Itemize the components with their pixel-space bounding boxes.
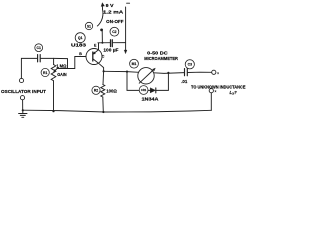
switch S1 bottom contact (100, 29, 103, 32)
transistor Q1 circle (86, 49, 102, 65)
svg-text:1 MΩ: 1 MΩ (56, 64, 67, 69)
svg-text:MICROAMMETER: MICROAMMETER (144, 56, 178, 61)
oscillator input top terminal (19, 78, 23, 82)
capacitor C3 (.01) (185, 69, 188, 76)
svg-text:S1: S1 (87, 24, 91, 28)
node: R2 ground junction (102, 111, 104, 113)
svg-text:B: B (79, 52, 82, 56)
switch S1 blade (open, hooks down-left from top wire) (97, 9, 103, 26)
designator circle C1 (35, 44, 43, 52)
node: R1 / ground rail junction (52, 110, 54, 112)
wire: wiper to Q1 base (57, 57, 86, 69)
wire: oscillator input top lead to C1 (21, 58, 37, 78)
designator circle CR1 (139, 86, 148, 95)
potentiometer R1 wiper arrow (55, 67, 59, 71)
designator circle C3 (185, 60, 194, 69)
svg-text:100Ω: 100Ω (106, 88, 117, 93)
collector node (103, 70, 105, 72)
wire: C1 line continues to box right edge (54, 58, 68, 68)
designator circle M1 (130, 59, 139, 68)
svg-text:C1: C1 (37, 46, 41, 50)
svg-text:LX?: LX? (230, 90, 238, 96)
oscillator input bottom terminal (20, 96, 24, 100)
wire: C1 to R1 top (41, 58, 54, 64)
svg-text:OSCILLATOR INPUT: OSCILLATOR INPUT (1, 89, 46, 94)
svg-text:1N34A: 1N34A (142, 97, 160, 102)
wire: diode to right riser (156, 73, 169, 91)
minus supply stub with down arrow (125, 7, 127, 50)
svg-text:0-50 DC: 0-50 DC (147, 51, 169, 56)
svg-text:GAIN: GAIN (57, 72, 66, 77)
capacitor C1 (38, 55, 41, 62)
resistor R2 100 ohm (101, 85, 105, 97)
diode CR1 branch: left drop (127, 72, 150, 91)
svg-text:TO UNKNOWN INDUCTANCE: TO UNKNOWN INDUCTANCE (191, 85, 246, 90)
transistor Q1 emitter (arrow toward bar, PNP) (93, 43, 99, 55)
ground symbol (19, 110, 27, 117)
minus sign (127, 2, 130, 4)
arrow to 9V supply (101, 6, 103, 10)
svg-text:.01: .01 (181, 79, 188, 84)
node: CR1 branch junction left (126, 71, 128, 73)
designator circle S1 (85, 22, 92, 29)
rail: C3 to output terminal (188, 71, 212, 73)
output top terminal (212, 70, 216, 74)
transistor Q1 collector (93, 59, 104, 72)
node: CR1 branch junction right (167, 72, 169, 74)
node: switch riser junction (101, 42, 103, 44)
wire: bottom terminal to ground rail (210, 93, 212, 111)
designator circle C2 (110, 27, 119, 36)
microammeter M1 body (138, 68, 154, 84)
svg-text:U183: U183 (71, 43, 87, 48)
meter rail: collector node to meter (104, 71, 139, 72)
transistor Q1 base bar (92, 52, 94, 61)
svg-text:R1: R1 (43, 71, 47, 75)
svg-text:1.2 mA: 1.2 mA (103, 10, 124, 15)
designator circle R1 (41, 68, 49, 76)
node: input ground junction (22, 109, 24, 111)
diode CR1 symbol 1N34A (150, 88, 155, 93)
top supply rail (98, 42, 110, 44)
wire: bottom terminal to ground rail (22, 100, 24, 110)
svg-text:R2: R2 (94, 89, 98, 93)
output bottom terminal (209, 89, 213, 93)
svg-text:100 µF: 100 µF (103, 47, 118, 52)
ground rail (23, 110, 212, 112)
wire: R2 bottom to ground rail (102, 97, 105, 112)
svg-text:C3: C3 (188, 63, 192, 67)
wire: collector node down to R2 (102, 71, 105, 84)
resistor R1 (potentiometer, 1 MEG GAIN) (51, 65, 56, 81)
capacitor C2 plates (100 uF) (111, 40, 113, 47)
designator circle Q1 (75, 33, 85, 43)
svg-text:CR1: CR1 (141, 88, 147, 92)
wire: R1 bottom lead to ground rail (53, 81, 55, 112)
svg-text:C: C (102, 55, 105, 59)
designator circle R2 (92, 86, 100, 94)
microammeter M1 needle (139, 70, 153, 83)
svg-text:9 V: 9 V (106, 3, 115, 8)
svg-text:Q1: Q1 (78, 36, 83, 40)
svg-text:ON-OFF: ON-OFF (106, 19, 124, 24)
svg-text:M1: M1 (132, 62, 137, 66)
rail: meter to C3 (154, 72, 184, 75)
wire: switch riser (101, 31, 103, 43)
svg-text:C2: C2 (112, 30, 116, 34)
